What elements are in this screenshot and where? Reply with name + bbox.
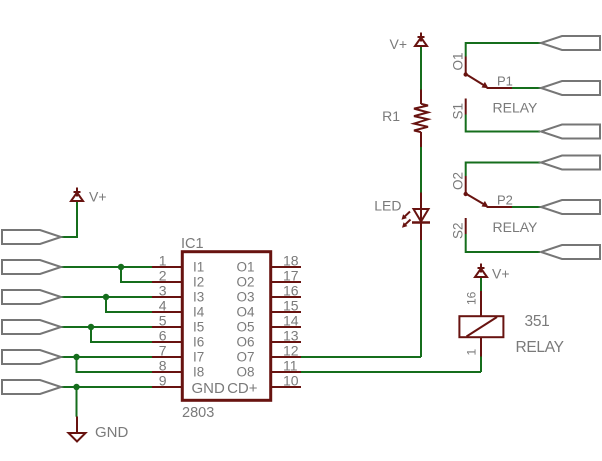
svg-text:13: 13	[283, 328, 299, 344]
svg-text:R1: R1	[382, 108, 400, 124]
svg-text:4: 4	[159, 298, 167, 314]
svg-text:I6: I6	[193, 335, 204, 350]
svg-text:O2: O2	[451, 172, 466, 190]
svg-text:7: 7	[159, 343, 167, 359]
svg-text:5: 5	[159, 313, 167, 329]
svg-text:I3: I3	[193, 290, 204, 305]
svg-text:11: 11	[283, 358, 298, 374]
svg-text:14: 14	[283, 313, 299, 329]
svg-text:S1: S1	[451, 103, 466, 120]
svg-text:I4: I4	[193, 305, 205, 320]
svg-text:O4: O4	[236, 305, 255, 320]
svg-text:O7: O7	[236, 350, 254, 365]
svg-text:RELAY: RELAY	[516, 339, 564, 356]
svg-text:O5: O5	[236, 320, 254, 335]
svg-text:2: 2	[159, 268, 167, 284]
svg-text:6: 6	[159, 328, 167, 344]
svg-text:10: 10	[283, 373, 299, 389]
svg-text:O6: O6	[236, 335, 254, 350]
svg-text:1: 1	[159, 253, 167, 269]
svg-text:I2: I2	[193, 275, 204, 290]
svg-text:9: 9	[159, 373, 167, 389]
svg-text:I5: I5	[193, 320, 204, 335]
svg-text:GND: GND	[95, 424, 129, 441]
svg-text:O3: O3	[236, 290, 254, 305]
svg-text:V+: V+	[492, 266, 510, 282]
svg-text:LED: LED	[374, 198, 401, 214]
svg-text:O2: O2	[236, 275, 254, 290]
svg-text:351: 351	[525, 313, 550, 330]
svg-text:18: 18	[283, 253, 299, 269]
svg-text:I7: I7	[193, 350, 204, 365]
svg-text:O8: O8	[236, 365, 254, 380]
svg-text:S2: S2	[451, 222, 466, 239]
svg-text:16: 16	[283, 283, 299, 299]
svg-text:RELAY: RELAY	[493, 219, 539, 235]
svg-text:V+: V+	[389, 36, 407, 52]
svg-text:GND: GND	[192, 380, 226, 397]
svg-text:RELAY: RELAY	[493, 100, 539, 116]
svg-text:8: 8	[159, 358, 167, 374]
svg-text:1: 1	[465, 349, 479, 356]
svg-text:15: 15	[283, 298, 299, 314]
svg-text:O1: O1	[451, 52, 466, 70]
svg-text:17: 17	[283, 268, 299, 284]
svg-text:V+: V+	[89, 189, 107, 205]
svg-text:O1: O1	[236, 260, 254, 275]
svg-text:I8: I8	[193, 365, 204, 380]
svg-text:3: 3	[159, 283, 167, 299]
svg-text:2803: 2803	[182, 405, 214, 421]
svg-text:IC1: IC1	[181, 236, 204, 252]
svg-text:12: 12	[283, 343, 299, 359]
svg-text:P1: P1	[497, 74, 513, 89]
svg-text:P2: P2	[497, 193, 513, 208]
svg-text:CD+: CD+	[227, 380, 258, 397]
svg-text:I1: I1	[193, 260, 204, 275]
svg-text:16: 16	[465, 291, 479, 305]
